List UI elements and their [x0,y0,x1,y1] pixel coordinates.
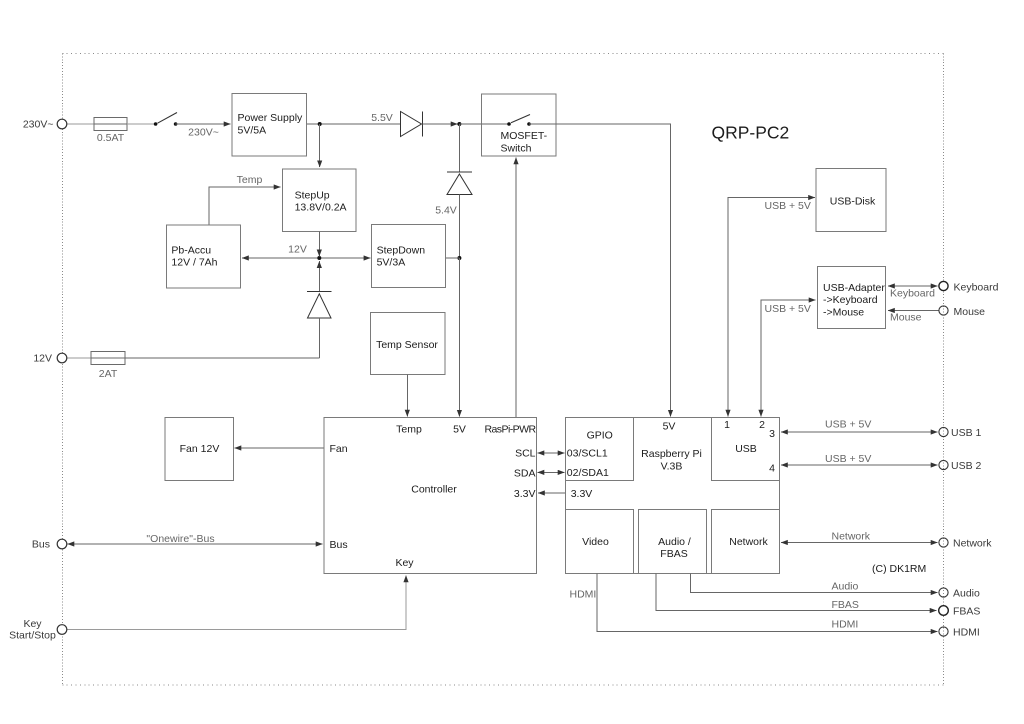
node Mouse [939,306,985,318]
svg-text:USB 1: USB 1 [951,427,982,439]
Network box [712,510,780,574]
controller U6 [324,418,537,574]
node HDMI [939,627,980,639]
svg-text:->Keyboard: ->Keyboard [823,294,878,306]
svg-text:Network: Network [832,531,871,543]
node Keyboard [939,281,999,293]
USB box [712,418,780,481]
wire SDA [538,471,565,473]
GPIO box [566,418,634,481]
svg-text:Network: Network [953,538,992,550]
svg-text:->Mouse: ->Mouse [823,306,864,318]
svg-text:5V/3A: 5V/3A [377,257,406,269]
svg-text:3.3V: 3.3V [514,488,536,500]
Temp Sensor U5 [370,312,445,374]
svg-text:FBAS: FBAS [953,606,980,618]
wire controller to fan [235,447,325,449]
svg-text:Fan: Fan [330,443,348,455]
svg-text:Audio /: Audio / [658,536,691,548]
svg-text:Bus: Bus [32,539,50,551]
fuse F2 2AT [91,352,125,381]
svg-text:5.5V: 5.5V [371,112,393,124]
Raspberry Pi U7 [566,418,780,574]
svg-text:Temp: Temp [237,174,263,186]
svg-text:4: 4 [769,462,775,474]
svg-text:FBAS: FBAS [660,548,687,560]
MOSFET switch U2 [482,94,557,156]
wire fuse2 to diode D3 [125,357,319,359]
wire network [781,542,938,544]
svg-text:03/SCL1: 03/SCL1 [567,448,608,460]
wire USB port2 to USB-Adapter [761,300,816,417]
svg-text:Video: Video [582,536,609,548]
svg-text:SDA: SDA [514,468,536,480]
svg-text:Start/Stop: Start/Stop [9,630,56,642]
junction J4 stepdown output [457,256,461,260]
node Key Start/Stop [9,618,67,642]
svg-text:230V~: 230V~ [188,127,219,139]
svg-text:HDMI: HDMI [953,627,980,639]
svg-text:USB 2: USB 2 [951,460,982,472]
Fan box M1 [165,418,234,481]
node Bus [32,539,67,551]
wire hdmi [597,574,938,632]
svg-text:0.5AT: 0.5AT [97,132,125,144]
svg-text:Bus: Bus [330,539,348,551]
svg-text:2: 2 [759,419,765,431]
svg-text:USB + 5V: USB + 5V [765,200,811,212]
wire USB port1 to USB-Disk [728,198,815,417]
wire 230V input [67,123,94,125]
svg-text:MOSFET-: MOSFET- [501,130,548,142]
Pb-Accu battery B1 [166,225,240,288]
svg-text:SCL: SCL [515,448,536,460]
svg-text:3.3V: 3.3V [571,488,593,500]
wire J1 down to StepUp [319,124,321,167]
svg-text:Switch: Switch [501,142,532,154]
wire RasPi-PWR controller to MOSFET gate [515,158,517,418]
wire fbas [656,574,937,611]
svg-text:3: 3 [769,428,775,440]
USB-Disk [816,169,886,232]
wire USB 1 [781,431,938,433]
svg-text:StepUp: StepUp [295,189,330,201]
svg-text:Fan 12V: Fan 12V [180,443,220,455]
svg-text:USB: USB [735,443,757,455]
svg-text:5V/5A: 5V/5A [238,124,267,136]
svg-text:Temp: Temp [396,424,422,436]
wire 12V bus between Pb-Accu and StepDown [242,257,370,259]
wire keyboard [888,285,938,287]
wire temp sensor to controller [406,375,408,417]
svg-text:1: 1 [724,419,730,431]
svg-text:"Onewire"-Bus: "Onewire"-Bus [146,533,214,545]
wire power supply to diode [307,123,401,125]
svg-text:5V: 5V [663,421,676,433]
svg-text:13.8V/0.2A: 13.8V/0.2A [295,202,347,214]
svg-text:USB + 5V: USB + 5V [825,453,871,465]
wire fuse to switch [127,123,156,125]
svg-text:Key: Key [23,618,42,630]
svg-text:Keyboard: Keyboard [890,288,935,300]
svg-text:Mouse: Mouse [890,312,922,324]
svg-text:02/SDA1: 02/SDA1 [567,467,609,479]
Audio/FBAS box [639,510,707,574]
svg-text:Mouse: Mouse [954,306,986,318]
svg-text:HDMI: HDMI [570,589,597,601]
power supply U1 [232,94,307,157]
node FBAS [939,606,981,618]
USB-Adapter [818,267,886,329]
svg-text:(C) DK1RM: (C) DK1RM [872,563,926,575]
wire node to MOSFET [459,123,509,125]
svg-text:Pb-Accu: Pb-Accu [171,244,211,256]
svg-text:HDMI: HDMI [832,619,859,631]
StepUp converter U3 [283,169,357,231]
svg-text:230V~: 230V~ [23,119,54,131]
svg-text:QRP-PC2: QRP-PC2 [712,123,790,143]
svg-text:Network: Network [729,536,768,548]
svg-text:12V / 7Ah: 12V / 7Ah [171,257,217,269]
wire diode to node [423,123,458,125]
wire temp Pb-Accu to StepUp [209,187,281,226]
wire stepdown to J4 [446,257,460,259]
svg-text:StepDown: StepDown [377,244,426,256]
node USB 2 [939,460,982,472]
svg-text:Keyboard: Keyboard [954,282,999,294]
svg-text:2AT: 2AT [99,368,118,380]
svg-text:Controller: Controller [411,484,457,496]
svg-text:Raspberry Pi: Raspberry Pi [641,448,702,460]
svg-text:Audio: Audio [953,588,980,600]
wire diode D3 up to J3 [318,261,320,291]
wire key start/stop [67,576,406,630]
wire J4 down to controller 5V [458,258,460,417]
wire Onewire bus [68,543,323,545]
node USB 1 [939,427,982,439]
svg-text:5.4V: 5.4V [435,205,457,217]
wire 3.3V [538,492,566,494]
svg-text:Key: Key [395,557,414,569]
wire mouse [888,310,939,312]
svg-text:USB-Adapter: USB-Adapter [823,282,885,294]
Video box [566,510,634,574]
svg-text:V.3B: V.3B [661,461,683,473]
wire switch to power supply [176,123,231,125]
svg-text:12V: 12V [288,243,307,255]
svg-text:Power Supply: Power Supply [238,112,304,124]
StepDown converter U4 [372,224,446,287]
junction J1 [318,122,322,126]
wire StepUp down to J3 [318,232,320,257]
diode D1 5.5V [371,112,422,137]
wire USB 2 [781,464,938,466]
svg-text:USB + 5V: USB + 5V [765,303,811,315]
switch S1 [154,113,178,126]
svg-text:12V: 12V [33,353,52,365]
wire MOSFET output to Raspberry Pi 5V [529,124,671,417]
zener diode D2 5.4V [435,124,472,258]
svg-text:5V: 5V [453,424,466,436]
svg-text:USB + 5V: USB + 5V [825,419,871,431]
node 230V~ [23,119,67,131]
svg-text:RasPi-PWR: RasPi-PWR [484,424,536,436]
node Network [939,538,992,550]
svg-text:USB-Disk: USB-Disk [830,196,876,208]
wire audio [691,574,938,593]
svg-text:Temp Sensor: Temp Sensor [376,339,438,351]
junction J3 [317,256,321,260]
fuse F1 0.5AT [94,118,127,145]
wire 12V input [67,357,91,359]
node 12V [33,353,66,365]
svg-text:GPIO: GPIO [587,430,613,442]
svg-text:FBAS: FBAS [832,599,859,611]
node J2 [457,122,461,126]
diode D3 [307,292,332,359]
svg-text:Audio: Audio [832,581,859,593]
node Audio [939,588,980,600]
wire SCL [538,452,565,454]
